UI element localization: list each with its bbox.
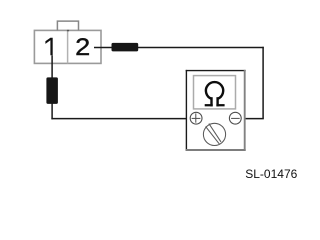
svg-text:SL-01476: SL-01476: [245, 167, 297, 181]
wire right vertical: [262, 47, 264, 119]
connector lock tab: [57, 21, 78, 30]
connector body: [34, 30, 101, 63]
ohmmeter body left edge: [185, 70, 187, 151]
omega symbol: [205, 82, 225, 106]
divider top tick: [67, 30, 69, 32]
ohmmeter body top edge: [186, 70, 246, 72]
wire to plus terminal (bottom horizontal): [51, 118, 190, 120]
svg-text:2: 2: [75, 34, 90, 60]
test probe on pin 1 wire: [46, 77, 58, 104]
ohmmeter body: [186, 71, 244, 150]
wire to minus terminal: [241, 118, 264, 120]
plus terminal: [190, 112, 202, 124]
ohmmeter body right edge: [244, 70, 246, 151]
test probe on pin 2 wire: [112, 43, 139, 52]
pin 1 label: [45, 38, 52, 56]
minus terminal: [229, 112, 241, 124]
wire pin2 to meter (top horizontal): [94, 47, 264, 49]
ohmmeter body bottom edge: [186, 149, 246, 151]
wire pin1 vertical: [51, 55, 53, 119]
connector cell divider: [67, 30, 69, 63]
ohmmeter display: [194, 76, 236, 109]
range selector knob: [203, 123, 225, 145]
